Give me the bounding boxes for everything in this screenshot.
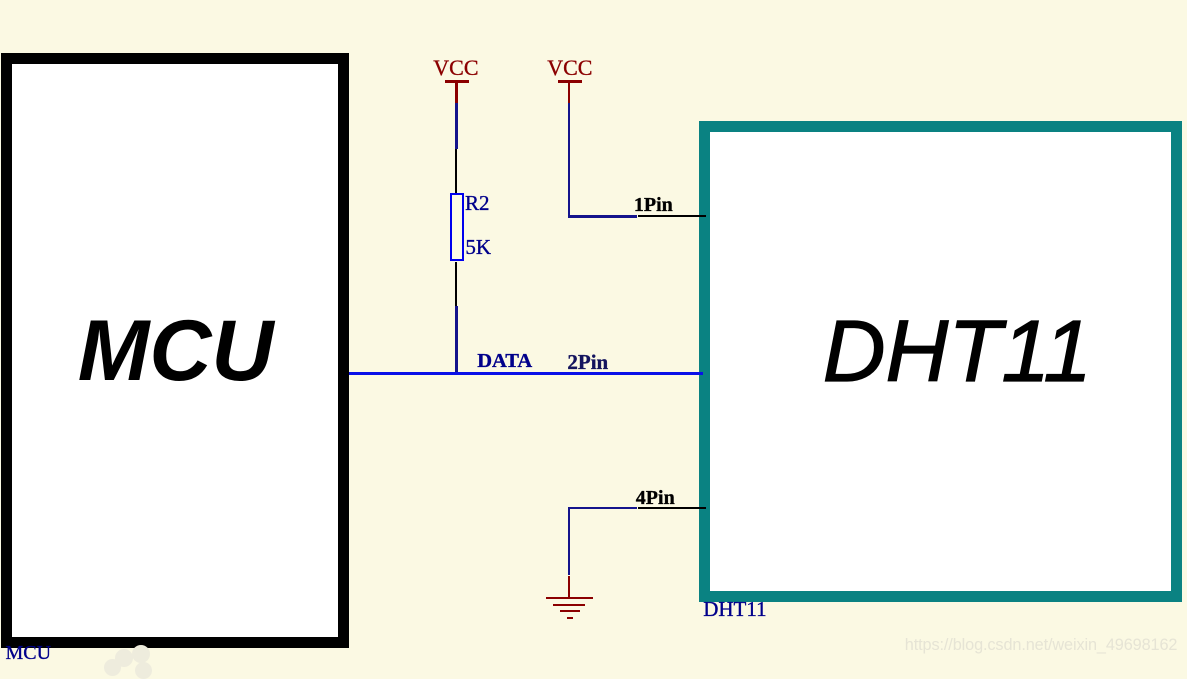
pin 2 of resistor R2 <box>455 262 457 307</box>
value label 5K <box>465 237 491 257</box>
ground symbol bars <box>546 597 593 599</box>
watermark csdn logo circles <box>104 645 152 667</box>
component DHT11 block <box>699 121 1182 602</box>
power symbol VCC left: label <box>433 58 478 78</box>
power symbol VCC left: bar and stub <box>445 80 469 82</box>
wire R2 to DATA net <box>455 306 457 373</box>
power symbol VCC right: label <box>547 58 592 78</box>
component MCU block <box>1 53 349 648</box>
ground stub (red) <box>568 576 570 599</box>
designator label R2 <box>465 193 490 213</box>
pin 4 of DHT11 <box>638 507 707 509</box>
wire horizontal to DHT11 pin 1 <box>568 215 638 217</box>
wire horizontal from ground riser to DHT11 pin 4 <box>568 507 638 509</box>
watermark csdn url text <box>905 636 1178 655</box>
wire VCC right down to pin1 level <box>568 103 570 216</box>
wire VCC to R2 <box>455 103 457 149</box>
pin label 2Pin <box>567 352 608 372</box>
designator label DHT11 <box>703 599 766 619</box>
pin 1 of DHT11 <box>638 215 707 217</box>
designator label MCU <box>6 643 52 663</box>
pin 1 of resistor R2 <box>455 149 457 193</box>
pin label 4Pin <box>636 488 675 508</box>
resistor R2 body <box>450 193 464 261</box>
wire DATA net (MCU to DHT11 pin 2) <box>349 372 703 375</box>
wire pin4 down to ground <box>568 507 570 576</box>
pin label 1Pin <box>634 195 673 215</box>
net label DATA <box>477 351 532 371</box>
power symbol VCC right: bar and stub <box>558 80 582 82</box>
